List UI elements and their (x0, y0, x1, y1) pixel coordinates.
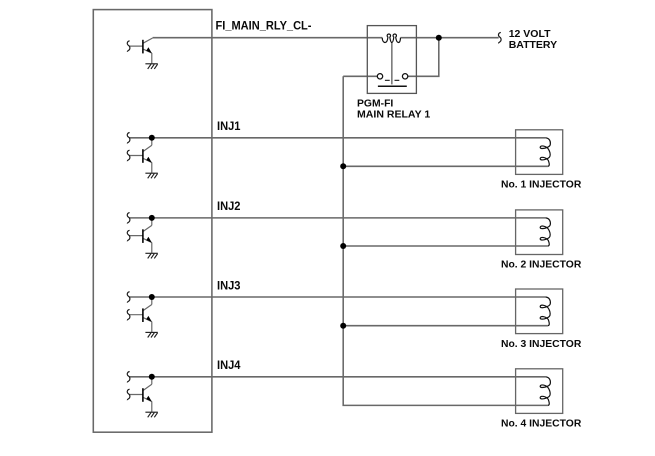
junction node Q3 collector / INJ2 (149, 215, 155, 221)
wire feed to injector 1 (343, 165, 515, 167)
base break squiggle Q3 (127, 230, 130, 241)
injector L3 No. 3 INJECTOR (516, 289, 563, 334)
relay armature link (391, 43, 393, 84)
wire break squiggle INJ2 (127, 213, 130, 224)
base break squiggle Q2 (127, 150, 130, 161)
relay coil (382, 34, 400, 43)
injector coil L1 (516, 138, 548, 167)
svg-text:MAIN RELAY 1: MAIN RELAY 1 (357, 108, 430, 120)
ground (Q5 emitter) (145, 412, 157, 417)
base break squiggle Q1 (127, 41, 130, 52)
relay moving contact bar (378, 85, 407, 87)
relay dashed link (385, 79, 399, 81)
relay contact pin left (377, 74, 382, 79)
base break squiggle Q5 (127, 389, 130, 400)
ground (Q2 emitter) (145, 173, 157, 178)
base break squiggle Q4 (127, 309, 130, 320)
transistor Q3 INJ2 driver (130, 218, 152, 253)
battery break symbol (498, 32, 501, 43)
transistor Q4 INJ3 driver (130, 297, 152, 332)
relay contact pin right (402, 74, 407, 79)
svg-text:INJ1: INJ1 (217, 119, 241, 133)
wire INJ2 (130, 217, 516, 219)
injector coil L4 (516, 377, 548, 406)
svg-text:FI_MAIN_RLY_CL-: FI_MAIN_RLY_CL- (216, 18, 312, 32)
wire relay right contact to battery node (408, 38, 439, 77)
wire feed to injector 2 (343, 245, 515, 247)
relay K1 PGM-FI MAIN RELAY 1 (367, 26, 416, 94)
injector L2 No. 2 INJECTOR (516, 210, 563, 255)
svg-text:No. 2 INJECTOR: No. 2 INJECTOR (501, 259, 582, 271)
injector L1 No. 1 INJECTOR (516, 130, 563, 175)
transistor Q5 INJ4 driver (130, 377, 152, 412)
injector L4 No. 4 INJECTOR (516, 369, 563, 414)
wire relay feed vertical with corner to injector 4 (343, 76, 515, 405)
wire relay left contact to feed line (343, 75, 377, 77)
svg-text:BATTERY: BATTERY (509, 39, 557, 51)
junction node feed/injector1 (340, 163, 346, 169)
ground (Q4 emitter) (145, 332, 157, 337)
wire break squiggle INJ3 (127, 292, 130, 303)
wire FI_MAIN_RLY_CL- (Q1 collector to relay coil) (153, 37, 383, 39)
junction node Q4 collector / INJ3 (149, 294, 155, 300)
wire break squiggle INJ4 (127, 372, 130, 383)
junction node Q5 collector / INJ4 (149, 374, 155, 380)
svg-text:No. 3 INJECTOR: No. 3 INJECTOR (501, 338, 582, 350)
svg-text:INJ2: INJ2 (217, 199, 241, 213)
wire INJ1 (130, 137, 516, 139)
svg-text:INJ4: INJ4 (217, 358, 241, 372)
svg-text:INJ3: INJ3 (217, 278, 241, 292)
transistor Q1 FI_MAIN_RLY_CL- driver (130, 38, 153, 64)
junction node Q2 collector / INJ1 (149, 135, 155, 141)
junction node feed/injector3 (340, 323, 346, 329)
junction node battery/relay contact (436, 35, 442, 41)
wire break squiggle INJ1 (127, 133, 130, 144)
transistor Q2 INJ1 driver (130, 138, 152, 173)
svg-text:No. 4 INJECTOR: No. 4 INJECTOR (501, 418, 582, 430)
svg-text:No. 1 INJECTOR: No. 1 INJECTOR (501, 179, 582, 191)
wire relay coil to battery (401, 37, 499, 39)
wire INJ3 (130, 296, 516, 298)
junction node feed/injector2 (340, 243, 346, 249)
wire INJ4 (130, 376, 516, 378)
injector coil L2 (516, 218, 548, 246)
ECM/PCM box (93, 10, 212, 433)
ground (Q3 emitter) (145, 253, 157, 258)
ground (Q1 emitter) (145, 64, 157, 69)
injector coil L3 (516, 297, 548, 326)
wire feed to injector 3 (343, 325, 515, 327)
